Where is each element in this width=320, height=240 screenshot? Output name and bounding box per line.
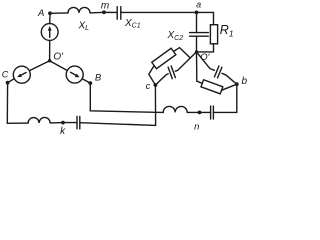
capacitor (line B) [211, 106, 214, 119]
wire up from bottom corner to node c (crosses B line) [154, 85, 156, 125]
branch O'-c main wire with capacitor [155, 52, 196, 85]
capacitor X_C2 [190, 33, 209, 37]
svg-text:B: B [95, 72, 102, 83]
wire coil to n to cap [187, 111, 210, 113]
source SB (phase B emf) [66, 66, 83, 83]
node k [61, 121, 65, 125]
wire O' to source SC [29, 61, 49, 71]
branch O'-b main wire with capacitor [197, 52, 237, 84]
resistor detour (branch O'-c) [149, 48, 190, 85]
svg-text:b: b [242, 76, 248, 87]
wire A to coil [50, 12, 68, 14]
wire B down and right to coil (crosses c wire) [90, 83, 163, 112]
node B [88, 81, 92, 85]
node O' (source neutral) [48, 59, 51, 62]
wire C down and along bottom to coil [7, 83, 28, 124]
wire SC to node C [8, 79, 15, 83]
wire cap to corner below c [80, 123, 156, 126]
inductor X_L [68, 7, 90, 13]
inductor (line B) [163, 106, 187, 112]
capacitor (branch O'-c) [168, 66, 175, 79]
wire a down to cap X_C2 [196, 12, 198, 32]
svg-text:C: C [2, 69, 9, 79]
capacitor X_C1 [117, 7, 121, 20]
wire SB to node B [82, 79, 90, 83]
node C [6, 81, 10, 85]
node A [48, 11, 52, 15]
node m [102, 10, 106, 14]
svg-text:A: A [37, 8, 44, 19]
wire SA to star point O' [49, 40, 51, 60]
node b [235, 82, 239, 86]
svg-text:c: c [146, 81, 151, 92]
svg-text:m: m [101, 1, 109, 12]
wire cap up to node b [213, 84, 236, 112]
wire coil to k to cap [50, 122, 77, 124]
capacitor (branch O'-b) [215, 66, 222, 78]
source SA (phase A emf) [41, 24, 58, 41]
wire X_C1 to a to corner [121, 11, 214, 13]
svg-text:a: a [196, 0, 201, 9]
wire X_C2 down to O' load neutral [196, 36, 198, 52]
source SC (phase C emf) [13, 66, 30, 83]
wire coil to m to cap X_C1 [90, 11, 117, 14]
capacitor (line C) [77, 116, 80, 128]
wire O' to source SB [50, 61, 68, 71]
svg-text:O′: O′ [53, 51, 64, 62]
node O' (load neutral) [195, 50, 198, 53]
node n [198, 111, 202, 115]
svg-text:n: n [194, 122, 199, 133]
wire R1 to O' load neutral [197, 44, 214, 52]
node c [154, 83, 158, 87]
resistor R1 [210, 25, 217, 44]
wire corner down to resistor R1 [213, 12, 215, 24]
wire A down to source SA [49, 13, 51, 23]
node a [195, 11, 199, 15]
inductor (line C) [28, 117, 50, 123]
resistor detour (branch O'-b) [197, 52, 237, 94]
